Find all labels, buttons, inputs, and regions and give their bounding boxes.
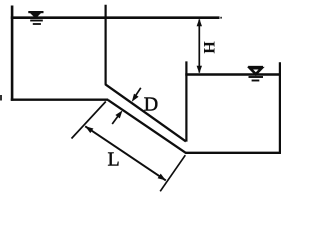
svg-text:H: H: [200, 41, 217, 54]
svg-text:L: L: [108, 149, 120, 171]
svg-text:D: D: [144, 94, 158, 116]
